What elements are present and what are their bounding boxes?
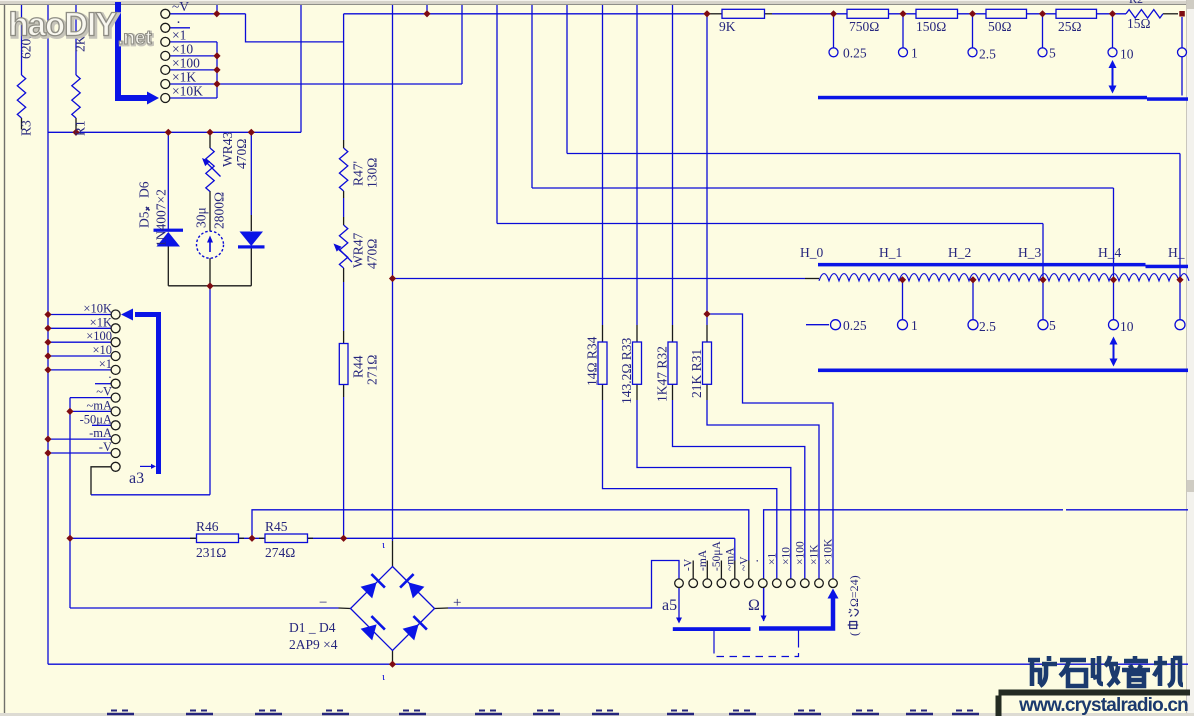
svg-text:haoDIY: haoDIY	[9, 6, 118, 43]
a1 contact 1	[161, 9, 170, 18]
svg-text:·: ·	[108, 371, 112, 385]
junction 833.5,13.8	[830, 10, 837, 17]
a3 wiper small arrow	[140, 465, 152, 467]
junction 973,279.8	[969, 276, 976, 283]
svg-text:R3: R3	[19, 120, 34, 136]
svg-text:Ω=24): Ω=24)	[847, 575, 861, 607]
a1 contact 3	[161, 37, 170, 46]
a1 contact 2	[161, 23, 170, 32]
svg-text:~V: ~V	[738, 556, 750, 571]
selector arrowhead a5	[828, 589, 839, 599]
svg-text:D1 _ D4: D1 _ D4	[289, 620, 336, 635]
svg-text:×100: ×100	[794, 541, 806, 565]
svg-text:2.5: 2.5	[979, 47, 996, 62]
bottom bar below coil	[818, 369, 1188, 373]
svg-text:~mA: ~mA	[86, 398, 112, 412]
wire R31 to a5 x1K	[707, 400, 819, 579]
a3 contact 7	[111, 393, 120, 402]
wire D6 top lead	[250, 132, 252, 215]
lead R47p bottom	[343, 191, 345, 198]
svg-text:·: ·	[750, 559, 765, 563]
terminal circle row2 x1043	[1038, 320, 1048, 330]
wire 150 to 50	[958, 13, 987, 15]
wire meter bottom to a3 out	[209, 286, 211, 495]
junction 343.6,538.3	[340, 535, 347, 542]
watermark haoDIY.net	[9, 6, 154, 51]
svg-text:150Ω: 150Ω	[916, 19, 946, 34]
wire down to circle 10 row2	[1113, 188, 1115, 320]
svg-text:274Ω: 274Ω	[265, 545, 295, 560]
wire bottom bus y664	[48, 663, 1188, 665]
wire last circle to bar1	[1181, 57, 1183, 96]
wire vertical x392 from top edge to bridge	[392, 5, 394, 541]
lead bridge left	[339, 607, 351, 610]
junction 392.5,664.2	[389, 661, 396, 668]
bottom clipped text row	[107, 713, 134, 715]
a3 contact 10	[111, 435, 120, 444]
resistor WR47 zigzag	[339, 225, 347, 268]
wire 25 to 15	[1097, 13, 1127, 15]
svg-text:1K47 R32: 1K47 R32	[655, 346, 670, 402]
lead WR43 to meter	[209, 191, 211, 231]
wire x1 row a1	[170, 41, 217, 43]
resistor 150ohm	[916, 9, 958, 18]
junction 1043,279.8	[1039, 276, 1046, 283]
svg-text:1: 1	[911, 318, 918, 333]
svg-text:WR47: WR47	[351, 233, 366, 268]
svg-text:a5: a5	[662, 597, 677, 614]
lead meter bottom	[209, 258, 211, 286]
lead into coil H0	[805, 278, 819, 280]
resistor WR43 zigzag	[206, 148, 214, 192]
wire shunt bus y538 left of R46	[70, 537, 197, 539]
junction 251.3,132.3	[248, 129, 255, 136]
wire D5 top lead	[167, 132, 169, 229]
resistor R3 zigzag	[17, 75, 25, 118]
svg-text:H_4: H_4	[1098, 245, 1121, 260]
svg-text:25Ω: 25Ω	[1058, 19, 1082, 34]
junction 48,356.0	[44, 352, 51, 359]
terminal circle top row x833	[829, 48, 838, 57]
wire x10 row a1	[170, 55, 217, 57]
wire row y153 to H5 tap	[567, 153, 1180, 155]
resistor 15ohm zigzag	[1126, 10, 1163, 18]
wire down to a5 ~mA	[734, 538, 736, 560]
wire a3 dot row open lead	[95, 383, 111, 385]
WR47 wiper arrow	[338, 248, 353, 263]
wire vertical x532 from top edge	[531, 5, 533, 188]
junction 1042.5,13.8	[1039, 10, 1046, 17]
svg-text:(: (	[847, 632, 861, 636]
wire a3 ~V row	[70, 397, 111, 399]
a5 contact 8	[773, 579, 782, 588]
svg-text:×1K: ×1K	[90, 315, 112, 329]
a3 contact 8	[111, 407, 120, 416]
svg-text:a3: a3	[129, 470, 144, 487]
svg-text:0.25: 0.25	[843, 46, 867, 61]
lead R32 top	[672, 325, 674, 342]
a1 contact 4	[161, 51, 170, 60]
junction 1112.5,13.8	[1109, 10, 1116, 17]
a3 contact 3	[111, 338, 120, 347]
heater bar above coil	[818, 263, 1146, 267]
junction 427,13.8	[423, 10, 430, 17]
lead R44 bottom	[343, 385, 345, 398]
selector arrowhead a3	[121, 309, 133, 321]
svg-text:×100: ×100	[172, 56, 200, 71]
junction 902.5,279.8	[899, 276, 906, 283]
wire tap stub to circle x1042	[1042, 14, 1044, 48]
svg-text:-mA: -mA	[89, 426, 112, 440]
junction 48,314.5	[44, 311, 51, 318]
wire a3 -mA row	[48, 438, 111, 440]
wire down to circle 5 row2	[1042, 224, 1044, 320]
lead bridge bottom	[392, 651, 394, 665]
a5 contact 12	[829, 579, 838, 588]
wire R3 top lead	[21, 5, 23, 75]
wire ~V jog to node V1	[246, 14, 344, 42]
wire dot-row a1 open lead	[170, 27, 190, 29]
wire 0.25 row2 open lead	[806, 324, 829, 326]
meter M (30uA 2800ohm)	[197, 231, 224, 258]
svg-text:Ω: Ω	[748, 597, 760, 614]
wire row y509 right part to edge	[1066, 509, 1188, 511]
terminal circle row2 x902	[898, 320, 908, 330]
svg-text:WR43: WR43	[220, 132, 235, 167]
a5 contact 11	[815, 579, 824, 588]
lead R32 bottom	[672, 384, 674, 400]
lead bridge right	[435, 607, 449, 610]
junction 217,55.9	[213, 52, 220, 59]
terminal circle top row x1112	[1108, 48, 1117, 57]
terminal circle row2 x1113	[1109, 320, 1119, 330]
a5 contact 2	[689, 579, 698, 588]
a5 contact 1	[675, 579, 684, 588]
wire a3 -50uA row open lead	[92, 424, 111, 426]
wire x1K row a1 to x462	[170, 83, 462, 85]
resistor R46 box	[197, 534, 239, 543]
wire y509 row to a5 ~V	[252, 510, 749, 561]
lead a5 contact x693	[692, 561, 694, 579]
junction 210,286	[206, 282, 213, 289]
resistor R33 box	[633, 342, 642, 384]
end node square top right	[1179, 11, 1185, 17]
svg-text:1N4007×2: 1N4007×2	[154, 189, 169, 247]
omega wiper down arrowhead	[761, 616, 767, 622]
a5 contact 6	[745, 579, 754, 588]
lead R31 bottom	[706, 384, 708, 400]
svg-text:2AP9 ×4: 2AP9 ×4	[289, 637, 338, 652]
junction 168.3,132.3	[165, 129, 172, 136]
svg-text:-mA: -mA	[697, 549, 709, 571]
wire 750 to 150	[889, 13, 917, 15]
double arrow coil (adjust 10)	[1113, 342, 1115, 361]
wire tap stub to circle x833	[833, 14, 835, 48]
junction 48,328.3	[44, 325, 51, 332]
junction 48,439.1	[44, 436, 51, 443]
junction 76,132.3	[72, 129, 79, 136]
svg-text:D5、D6: D5、D6	[137, 181, 152, 228]
a1 contact 5	[161, 65, 170, 74]
svg-text:×1: ×1	[172, 28, 186, 43]
wire down to circle H5	[1179, 154, 1181, 320]
wire left bus y132	[48, 131, 301, 133]
wire a3 x10 row	[48, 355, 111, 357]
svg-text:R47': R47'	[351, 161, 366, 186]
wire a3 x1 row	[48, 369, 111, 371]
resistor R44 box	[339, 344, 348, 385]
svg-text:H_0: H_0	[800, 245, 823, 260]
diode D3 (bottom-left arm)	[361, 624, 377, 640]
a3 contact 2	[111, 324, 120, 333]
wire a3 x10K row	[48, 314, 111, 316]
junction 210,132.3	[206, 129, 213, 136]
a5 contact 7	[759, 579, 768, 588]
a3 contact 4	[111, 352, 120, 361]
junction 48,453.0	[44, 449, 51, 456]
svg-text:ι: ι	[382, 539, 385, 551]
wire vertical x301 from top edge	[300, 5, 302, 132]
lead a3 wiper-out contact	[91, 467, 111, 495]
svg-text:-50μA: -50μA	[711, 541, 723, 571]
wire omega arrow lead (overlap)	[763, 588, 765, 616]
a3 contact 6	[111, 379, 120, 388]
wire R32 column from top edge	[672, 5, 674, 325]
wire coil feed y278	[393, 278, 806, 280]
resistor R1 zigzag	[72, 75, 80, 118]
svg-text:-V: -V	[99, 440, 112, 454]
svg-text:H_2: H_2	[948, 245, 971, 260]
svg-text:470Ω: 470Ω	[234, 139, 249, 169]
dashed link between a5 bars	[713, 631, 715, 646]
svg-text:www.crystalradio.cn: www.crystalradio.cn	[1018, 695, 1188, 716]
svg-text:×10K: ×10K	[83, 302, 112, 316]
wire vertical x567 from top edge	[566, 5, 568, 154]
wire a3 x1K row	[48, 327, 111, 329]
svg-text:~V: ~V	[96, 385, 112, 399]
wire bridge minus row y608	[70, 607, 339, 609]
coil H_0..H_5	[819, 274, 1189, 281]
svg-text:×10: ×10	[780, 547, 792, 565]
a3 contact 11	[111, 449, 120, 458]
lead D5 bottom	[167, 246, 169, 286]
selector arrow a5 (x10K position)	[759, 598, 833, 629]
bridge rectifier D1-D4 outline	[351, 567, 435, 651]
wire end tap down to circle	[1181, 17, 1183, 48]
wire x343 between R47p and WR47	[343, 198, 345, 217]
lead R44 top	[343, 331, 345, 344]
wire D5-meter-D6 bottom join	[168, 285, 251, 287]
wire between R46 R45	[239, 537, 266, 539]
svg-text:~mA: ~mA	[724, 547, 736, 571]
junction 707,13.8	[703, 10, 710, 17]
wire a1 tie vertical x217	[216, 42, 218, 98]
svg-text:1: 1	[911, 46, 918, 61]
junction 217,69.9	[213, 66, 220, 73]
svg-text:9K: 9K	[719, 19, 736, 34]
svg-text:271Ω: 271Ω	[365, 355, 380, 385]
wire a5 wiper arrow lead	[678, 588, 680, 618]
svg-text:~V: ~V	[172, 0, 189, 14]
lead R45 right	[308, 537, 314, 539]
resistor R31 box	[703, 342, 712, 384]
lead a5 contact x707	[706, 561, 708, 579]
svg-text:-V: -V	[683, 558, 695, 571]
wire tap stub to circle x1112	[1112, 14, 1114, 48]
wire tap stub to circle x972	[972, 14, 974, 48]
junction 48,342.2	[44, 339, 51, 346]
wire row y188 to H4 tap	[532, 187, 1114, 189]
svg-text:×10K: ×10K	[823, 538, 835, 565]
svg-text:143.2Ω R33: 143.2Ω R33	[619, 337, 634, 404]
svg-text:15Ω: 15Ω	[1127, 16, 1151, 31]
junction 70,538.3	[66, 535, 73, 542]
a3 contact 9	[111, 421, 120, 430]
contact bar a5 left	[673, 627, 751, 631]
junction 70,411.4	[66, 408, 73, 415]
terminal circle top row x1182	[1178, 48, 1187, 57]
lead R1 bottom	[75, 118, 77, 132]
wire x100 row a1	[170, 69, 217, 71]
a5 contact 10	[801, 579, 810, 588]
svg-text:+: +	[453, 595, 461, 611]
resistor 750ohm	[847, 9, 889, 18]
resistor R47p zigzag	[339, 148, 347, 191]
svg-text:×100: ×100	[86, 329, 112, 343]
svg-text:H_3: H_3	[1018, 245, 1041, 260]
junction 903,13.8	[899, 10, 906, 17]
svg-text:ι: ι	[382, 671, 385, 683]
svg-text:H_1: H_1	[879, 245, 902, 260]
lead a5 contact x721	[720, 561, 722, 579]
lead R3 bottom	[21, 118, 23, 130]
lead R46 left	[190, 537, 197, 539]
lead 9K left	[707, 13, 722, 15]
wire a3 x100 row	[48, 341, 111, 343]
svg-text:5: 5	[1049, 46, 1056, 61]
svg-text:R46: R46	[196, 519, 219, 534]
wire R34 to a5 x1	[603, 400, 777, 579]
svg-text:R45: R45	[265, 519, 288, 534]
diode D2 (top-right arm)	[408, 582, 424, 598]
wire shunt bus y538 right of R45	[308, 537, 735, 539]
wire main left vertical x48	[47, 5, 49, 664]
svg-text:50Ω: 50Ω	[988, 19, 1012, 34]
wire stub to top edge at x427	[426, 5, 428, 14]
junction 1180,279.8	[1176, 276, 1183, 283]
svg-text:10: 10	[1120, 319, 1134, 334]
wire row y223 to H3 tap	[497, 223, 1043, 225]
lead WR47 top	[343, 217, 345, 225]
a5 wiper down arrowhead	[676, 618, 682, 624]
a5 contact 5	[731, 579, 740, 588]
svg-text:R1: R1	[73, 120, 88, 136]
svg-text:×1K: ×1K	[809, 544, 821, 565]
wire vertical x497 from top edge	[496, 5, 498, 224]
WR43 wiper arrow	[206, 162, 221, 177]
a3 contact 12	[111, 462, 120, 471]
resistor R34 box	[598, 342, 607, 384]
a1 contact 7	[161, 94, 170, 103]
svg-text:H_: H_	[1168, 245, 1185, 260]
crystalradio.cn logo frame	[999, 693, 1191, 716]
terminal circle row2 x1180	[1175, 320, 1185, 330]
svg-text:×1: ×1	[766, 553, 778, 565]
wire stub to top edge at x217	[216, 5, 218, 14]
resistor 25ohm	[1056, 9, 1097, 18]
svg-text:.net: .net	[118, 28, 152, 49]
wire bridge plus to a5 wiper contact	[448, 561, 679, 609]
terminal circle top row x972	[968, 48, 977, 57]
a5 contact 4	[717, 579, 726, 588]
wire 50 to 25	[1027, 13, 1057, 15]
wire a3 out to meter node	[91, 494, 210, 496]
lead WR47 bottom	[343, 268, 345, 282]
junction 252,538.3	[248, 535, 255, 542]
wire vertical x70 (~V node) down to bridge minus	[69, 398, 71, 608]
wire R34 column from top edge	[602, 5, 604, 325]
lead R31 top	[706, 325, 708, 342]
wire omega wiper to row y509	[764, 510, 1063, 621]
wire R31 column from bus	[706, 14, 708, 325]
svg-text:2.5: 2.5	[979, 319, 996, 334]
svg-text:470Ω: 470Ω	[365, 239, 380, 269]
svg-text:×10: ×10	[92, 343, 112, 357]
lead WR43 top	[209, 132, 211, 148]
diode D6	[240, 232, 264, 247]
svg-text:R44: R44	[351, 355, 366, 378]
svg-text:750Ω: 750Ω	[849, 19, 879, 34]
lead R33 bottom	[636, 384, 638, 400]
terminal circle row2 x835	[831, 320, 841, 330]
terminal circle top row x903	[899, 48, 908, 57]
wire vertical x462 from top edge	[461, 5, 463, 84]
a1 contact 6	[161, 80, 170, 89]
lead R46 right	[239, 537, 245, 539]
logo text 矿石收音机	[1028, 656, 1057, 686]
selector arrow a1 (x10K position)	[118, 2, 147, 98]
glyphs zhong xin (drawn)	[848, 609, 859, 628]
lead R34 top	[602, 325, 604, 342]
selector arrow a3 (x10K position)	[135, 315, 159, 475]
wire coil tap down x902	[902, 281, 904, 320]
svg-text:×1K: ×1K	[172, 70, 196, 85]
junction 217,84.0	[213, 80, 220, 87]
diode D4 (bottom-right arm)	[403, 624, 419, 640]
lead 15ohm to end node	[1163, 13, 1178, 15]
diode D5	[154, 229, 184, 232]
wire R32 to a5 x100	[673, 400, 805, 579]
lead 9K right	[765, 13, 773, 15]
a3 wiper small arrowhead	[151, 464, 156, 469]
resistor R32 box	[668, 342, 677, 384]
a5 contact 9	[787, 579, 796, 588]
resistor 9K	[722, 9, 765, 18]
svg-text:×10K: ×10K	[172, 84, 203, 99]
svg-text:21K R31: 21K R31	[689, 349, 704, 398]
wire 9K to 750	[772, 13, 847, 15]
wire x343 top segment	[343, 14, 345, 140]
svg-text:30μ: 30μ	[194, 207, 209, 228]
a3 contact 5	[111, 365, 120, 374]
lead a5 contact x748	[748, 561, 750, 579]
junction 216.8,13.8	[213, 10, 220, 17]
svg-text:×1: ×1	[99, 357, 112, 371]
a5 contact 3	[703, 579, 712, 588]
junction 972.5,13.8	[969, 10, 976, 17]
svg-text:0.25: 0.25	[843, 318, 867, 333]
wire x343 between WR47 and R44	[343, 282, 345, 331]
